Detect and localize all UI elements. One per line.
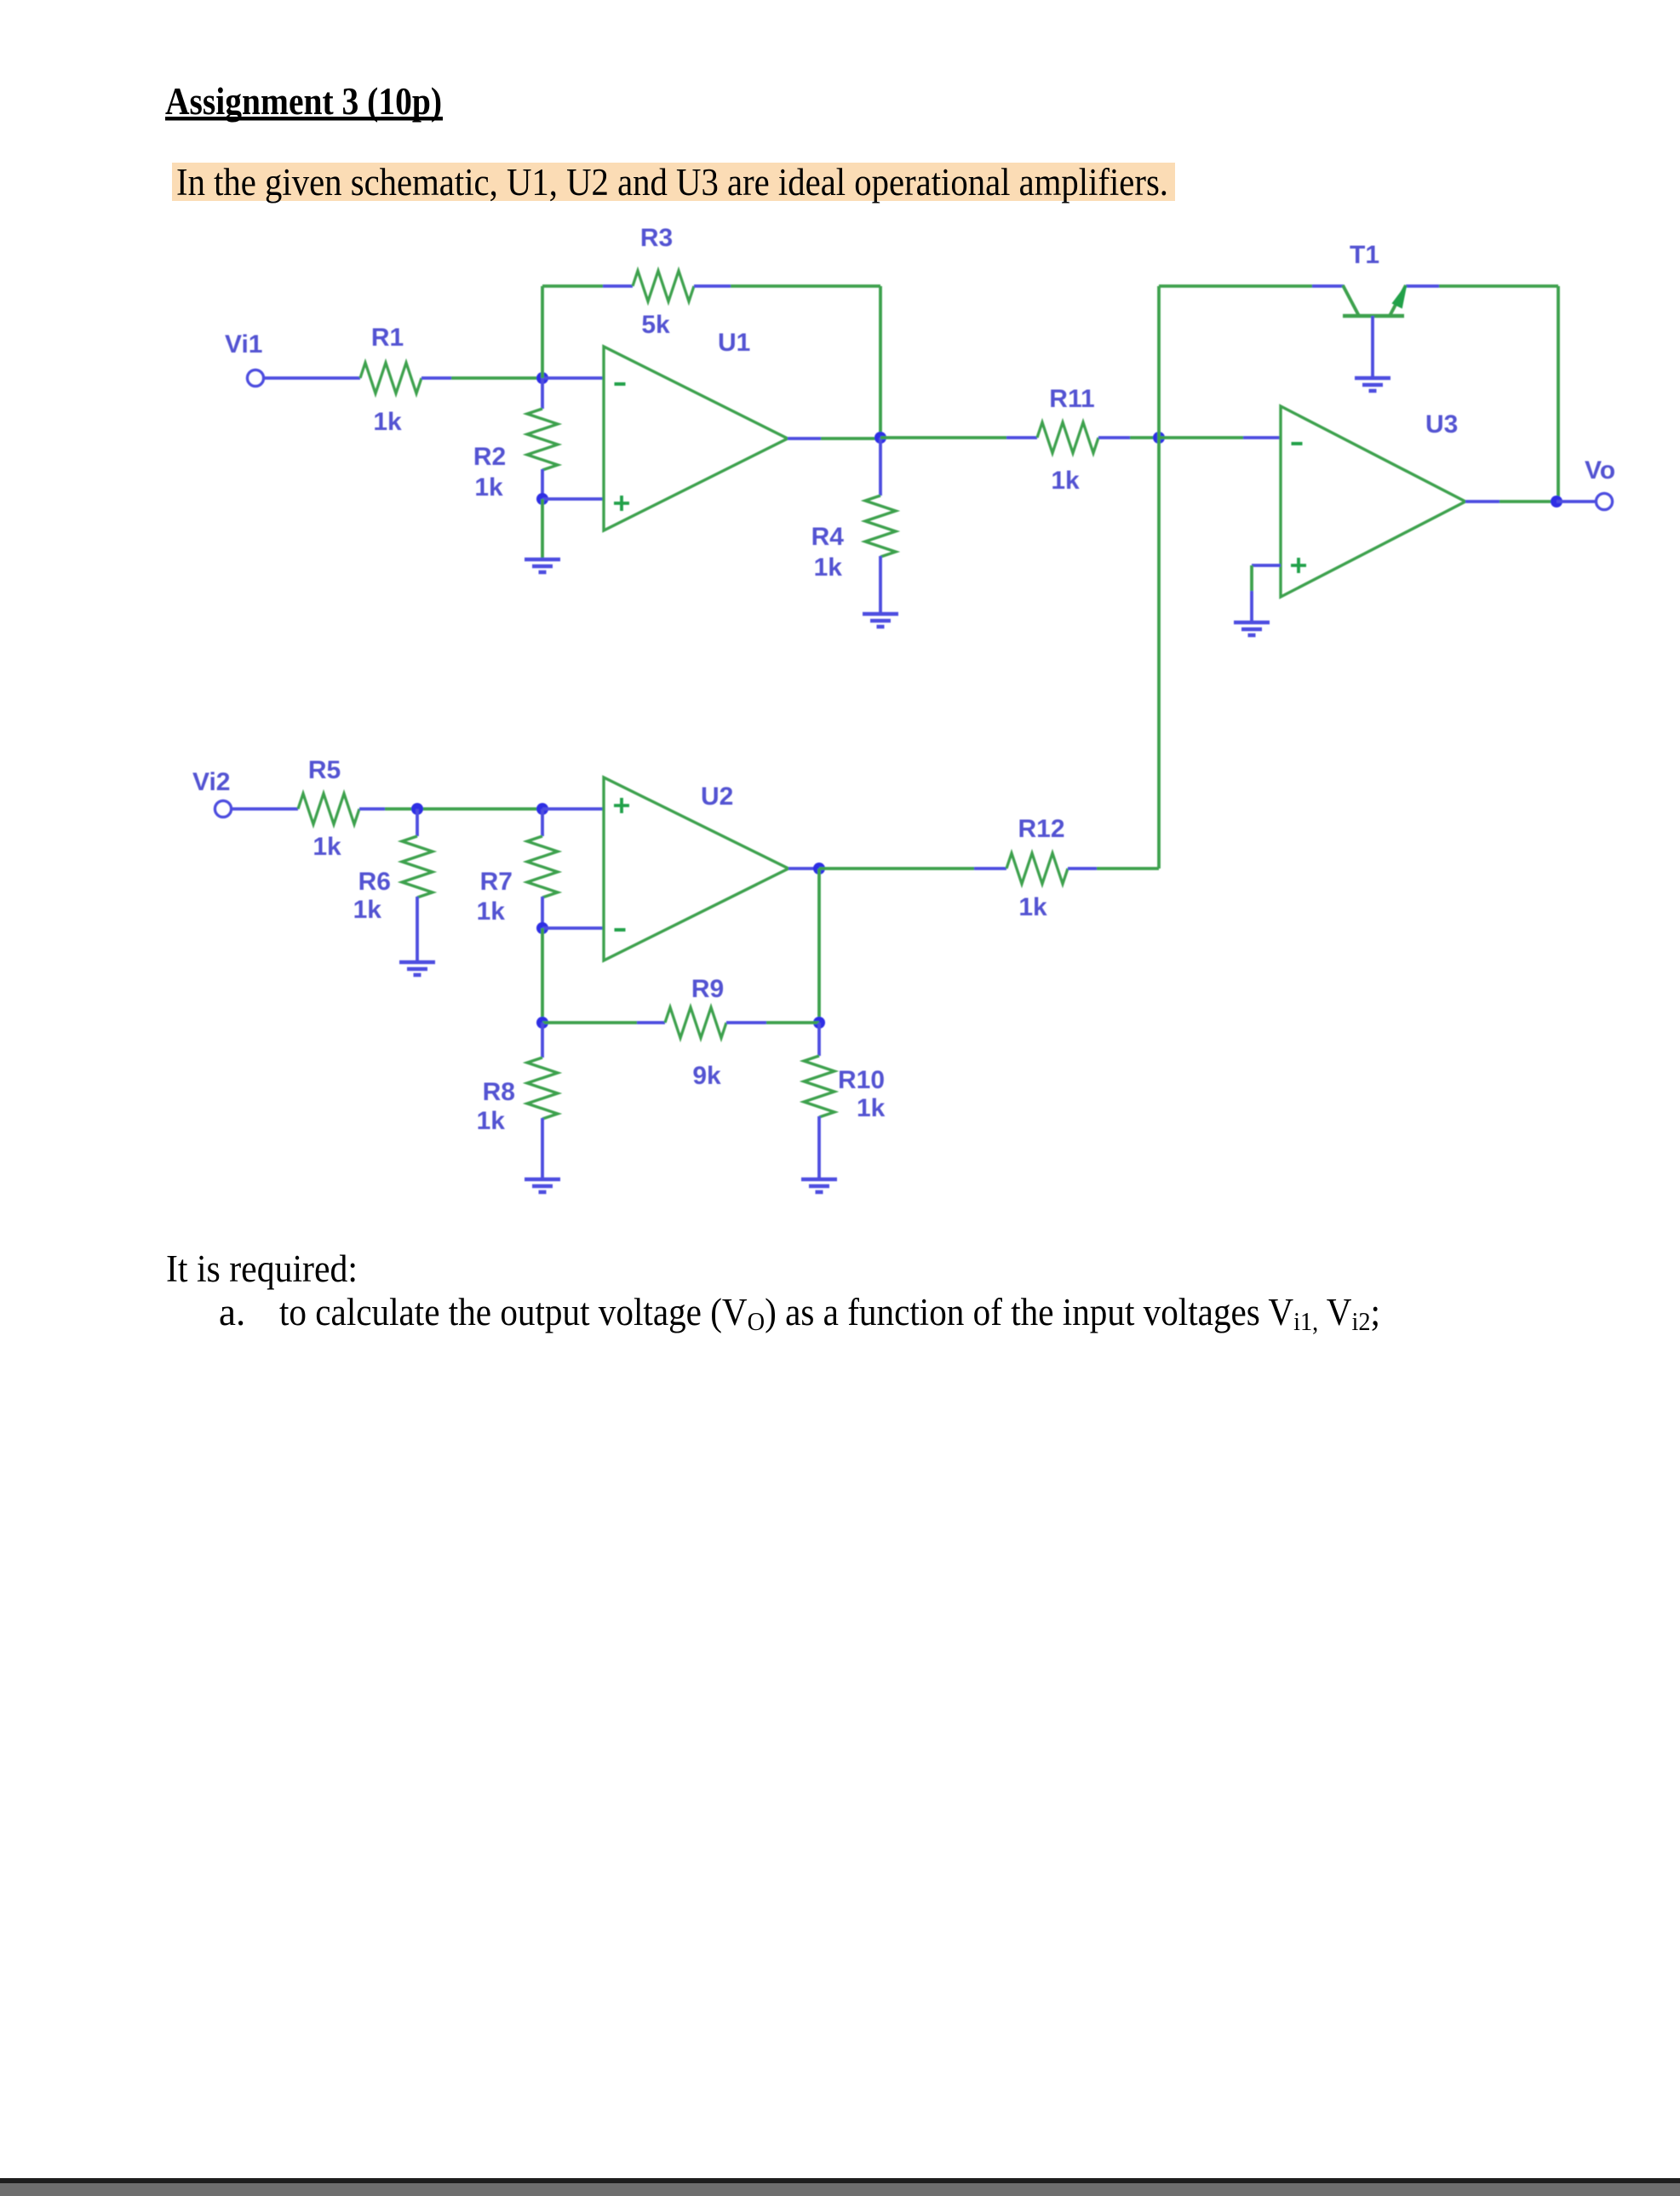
svg-text:1k: 1k — [1051, 467, 1080, 495]
svg-text:Vi2: Vi2 — [192, 768, 231, 796]
svg-text:1k: 1k — [373, 408, 402, 436]
svg-text:1k: 1k — [477, 897, 506, 926]
svg-text:9k: 9k — [692, 1062, 721, 1090]
svg-text:R12: R12 — [1018, 815, 1064, 843]
svg-text:1k: 1k — [1018, 893, 1047, 921]
svg-text:1k: 1k — [312, 833, 341, 861]
svg-text:R9: R9 — [691, 975, 724, 1003]
svg-text:R1: R1 — [371, 324, 404, 352]
svg-text:T1: T1 — [1350, 241, 1379, 269]
svg-text:R6: R6 — [358, 868, 391, 896]
svg-text:In the given schematic, U1, U2: In the given schematic, U1, U2 and U3 ar… — [176, 161, 1168, 204]
svg-text:1k: 1k — [857, 1094, 886, 1122]
svg-text:1k: 1k — [814, 553, 843, 582]
svg-text:a.: a. — [219, 1291, 245, 1333]
svg-text:1k: 1k — [477, 1107, 506, 1135]
svg-text:R11: R11 — [1049, 385, 1094, 413]
svg-text:U2: U2 — [701, 783, 733, 811]
svg-text:1k: 1k — [353, 896, 382, 924]
svg-text:Vi1: Vi1 — [225, 330, 263, 358]
svg-text:R3: R3 — [640, 224, 673, 252]
svg-text:R4: R4 — [811, 523, 845, 551]
svg-text:Assignment 3 (10p): Assignment 3 (10p) — [165, 80, 442, 123]
svg-text:to calculate the output voltag: to calculate the output voltage (VO) as … — [279, 1291, 1380, 1336]
svg-text:R10: R10 — [838, 1066, 885, 1094]
svg-text:R8: R8 — [483, 1078, 515, 1106]
svg-text:U1: U1 — [718, 329, 750, 357]
svg-text:Vo: Vo — [1585, 456, 1615, 484]
svg-text:R7: R7 — [480, 868, 513, 896]
svg-text:R5: R5 — [308, 756, 341, 784]
svg-text:5k: 5k — [641, 311, 670, 339]
svg-text:R2: R2 — [473, 443, 506, 471]
svg-text:1k: 1k — [474, 473, 503, 502]
svg-text:U3: U3 — [1425, 410, 1458, 439]
svg-text:It is required:: It is required: — [166, 1247, 358, 1290]
